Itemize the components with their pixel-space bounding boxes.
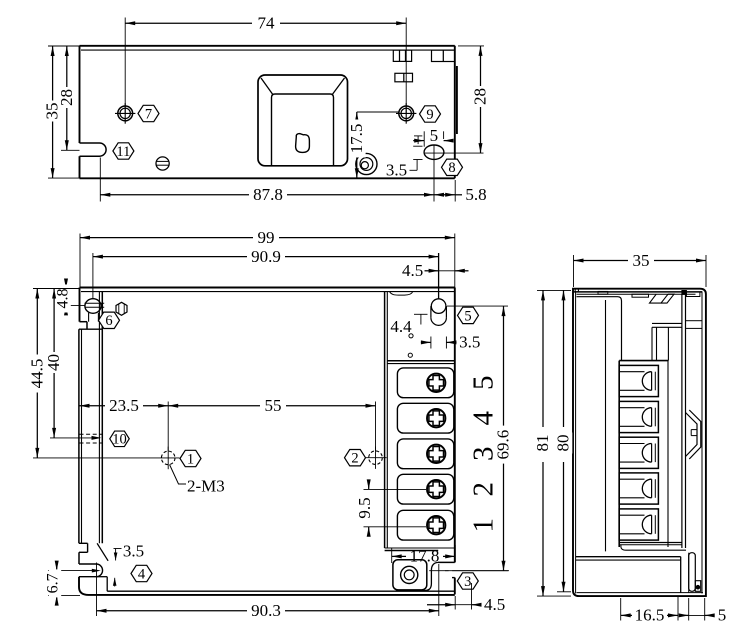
svg-text:3.5: 3.5 <box>386 160 407 179</box>
svg-text:9: 9 <box>426 107 433 123</box>
dimension 5.8 <box>434 145 487 204</box>
svg-text:7: 7 <box>145 106 152 122</box>
terminal 2 label <box>468 482 500 497</box>
dimension 5 oval width <box>413 126 453 147</box>
side view: terminal cavity 2 <box>619 473 658 504</box>
dimension 35 left <box>43 46 80 178</box>
svg-text:69.6: 69.6 <box>494 430 513 460</box>
svg-text:1: 1 <box>468 518 500 533</box>
side view: terminal cavity 4 <box>619 401 658 432</box>
front view: AC inlet box <box>393 560 427 590</box>
svg-text:99: 99 <box>258 228 275 247</box>
dimension 90.3 <box>97 563 439 621</box>
svg-text:6.7: 6.7 <box>45 573 62 593</box>
svg-text:4.5: 4.5 <box>484 595 505 614</box>
top view: mounting hole 7 <box>115 103 135 124</box>
svg-text:40: 40 <box>44 354 63 371</box>
side view: terminal cavity 5 <box>619 365 658 396</box>
svg-text:9.5: 9.5 <box>355 497 374 518</box>
terminal 3 label <box>468 447 500 462</box>
side view: inner wall left <box>577 297 622 552</box>
svg-text:10: 10 <box>112 432 127 448</box>
side view: terminal cavity 3 <box>619 437 658 468</box>
svg-text:5: 5 <box>464 308 471 324</box>
dimension 3.5 oval <box>386 136 423 179</box>
svg-text:3: 3 <box>464 574 471 590</box>
terminal 2 cage <box>397 474 453 504</box>
top view: left hook slot <box>80 143 107 156</box>
front view: top-left screw slot <box>85 299 105 322</box>
terminal 1 label <box>468 518 500 533</box>
side view: terminal block body <box>619 361 682 547</box>
top view: cable bushing <box>356 153 377 174</box>
side view: bottom right clip <box>689 553 701 593</box>
balloon 3 <box>457 573 478 590</box>
side view: terminal cavity 1 <box>619 509 658 540</box>
svg-text:5: 5 <box>718 606 727 625</box>
svg-text:17.5: 17.5 <box>347 124 366 154</box>
dimension 4.5 bottom right <box>427 583 505 614</box>
front view: hex bolt <box>116 302 127 315</box>
dimension 17.5 <box>347 112 399 178</box>
front view: bottom-right corner seam <box>424 562 510 590</box>
top view: cover lip line right <box>456 66 458 134</box>
svg-text:5: 5 <box>430 126 439 145</box>
terminal 3 screw <box>427 445 445 463</box>
svg-text:81: 81 <box>533 435 552 452</box>
terminal 5 screw <box>427 374 445 392</box>
dimension 28 right <box>458 46 490 153</box>
dimension 4.8 <box>54 279 85 316</box>
dimension 3.5 bottom left <box>113 542 144 587</box>
front view: rail lower step and slot <box>79 543 108 595</box>
front view: terminal block frame <box>385 292 456 563</box>
side view: bent bracket top <box>650 294 675 303</box>
svg-text:11: 11 <box>116 144 130 160</box>
terminal 4 cage <box>397 403 453 433</box>
balloon 4 <box>131 565 152 582</box>
front view: rivets <box>408 334 413 358</box>
balloon 6 <box>99 312 120 329</box>
dimension 9.5 <box>355 479 426 536</box>
dimension 44.5 <box>27 289 157 458</box>
side view: rail hook right <box>686 410 701 459</box>
dimension 28 left <box>57 46 80 150</box>
balloon 9 <box>420 106 441 123</box>
svg-text:2: 2 <box>468 482 500 497</box>
dimension 90.9 <box>93 247 439 299</box>
balloon 8 <box>442 159 463 176</box>
dimension 69.6 <box>445 306 513 571</box>
terminal 4 label <box>468 410 500 425</box>
svg-text:90.3: 90.3 <box>251 601 281 620</box>
dimension 6.7 <box>45 561 101 606</box>
svg-text:4: 4 <box>138 566 146 582</box>
dimension 35 side <box>574 251 707 287</box>
terminal 3 cage <box>397 439 453 469</box>
svg-text:6: 6 <box>105 313 112 329</box>
svg-text:4: 4 <box>468 410 500 425</box>
svg-text:5.8: 5.8 <box>465 185 486 204</box>
svg-text:4.5: 4.5 <box>402 261 423 280</box>
side view: top tabs <box>598 291 649 297</box>
terminal 2 screw <box>427 480 445 498</box>
side view: terminal mount band <box>652 321 702 361</box>
svg-text:17.8: 17.8 <box>410 547 440 566</box>
top view: corner connector block <box>432 50 455 61</box>
svg-text:23.5: 23.5 <box>109 396 139 415</box>
front view: rail hidden slot <box>80 434 103 443</box>
terminal 1 screw <box>427 516 445 534</box>
dimension 4.5 top right <box>402 261 469 280</box>
dimension 81 <box>533 290 571 596</box>
dimension 17.8 <box>392 545 456 566</box>
dimension 16.5 <box>621 596 678 625</box>
svg-text:5: 5 <box>468 376 500 391</box>
terminal 1 cage <box>397 510 453 540</box>
dimension 23.5 <box>80 396 169 451</box>
front view: case outline <box>80 288 455 595</box>
svg-text:2-M3: 2-M3 <box>187 477 225 496</box>
dimension 40 <box>44 289 101 440</box>
front view: left mounting rail <box>79 292 102 544</box>
balloon 7 <box>138 105 159 122</box>
svg-text:55: 55 <box>265 396 282 415</box>
svg-text:74: 74 <box>258 14 276 33</box>
top view: mounting hole 9 <box>396 103 416 124</box>
svg-text:87.8: 87.8 <box>253 185 283 204</box>
dimension 3.5 keyhole <box>421 333 481 352</box>
svg-text:4.8: 4.8 <box>54 289 71 309</box>
svg-text:1: 1 <box>187 451 194 467</box>
svg-text:4.4: 4.4 <box>390 317 412 336</box>
side view: case outline <box>573 289 706 597</box>
terminal 5 cage <box>397 368 453 398</box>
svg-text:28: 28 <box>471 88 490 105</box>
svg-text:16.5: 16.5 <box>635 606 665 625</box>
dimension 5 side <box>679 598 727 625</box>
svg-text:3.5: 3.5 <box>123 542 144 561</box>
top view: transformer cover outline <box>258 75 348 166</box>
top view: chassis top outline <box>80 46 455 179</box>
side view: bottom tray <box>576 545 686 593</box>
top view: AC pin header row 2 <box>395 73 413 82</box>
front view: cover seam tab top <box>390 292 413 296</box>
svg-text:90.9: 90.9 <box>251 247 281 266</box>
dimension 4.4 <box>390 314 427 336</box>
dimension 55 <box>168 396 375 451</box>
side view: top right screw boss <box>682 291 700 549</box>
balloon 10 <box>110 431 130 448</box>
top view: AC pin header row 1 <box>393 50 411 61</box>
dimension 99 <box>80 228 455 288</box>
balloon 1 <box>180 450 201 467</box>
front view: top-right keyhole slot <box>431 299 447 326</box>
label 2-M3 <box>170 465 225 496</box>
balloon 5 <box>458 307 479 324</box>
dimension 74 <box>125 14 406 113</box>
dimension 87.8 <box>100 158 434 205</box>
svg-text:35: 35 <box>633 251 650 270</box>
svg-text:28: 28 <box>57 89 76 106</box>
svg-text:8: 8 <box>448 160 455 176</box>
front view: M3 hole 2 <box>364 447 386 469</box>
dimension 80 <box>554 290 573 591</box>
balloon 11 <box>113 143 134 160</box>
svg-text:2: 2 <box>351 451 358 467</box>
front view: M3 hole 1 <box>157 447 180 470</box>
terminal 4 screw <box>427 409 445 427</box>
balloon 2 <box>345 450 366 467</box>
svg-text:3.5: 3.5 <box>459 333 480 352</box>
top view: oval knockout right <box>424 145 483 159</box>
top view: transformer core hole <box>296 134 310 153</box>
terminal 5 label <box>468 376 500 391</box>
svg-text:80: 80 <box>554 435 573 452</box>
top view: slotted screw <box>156 157 169 170</box>
